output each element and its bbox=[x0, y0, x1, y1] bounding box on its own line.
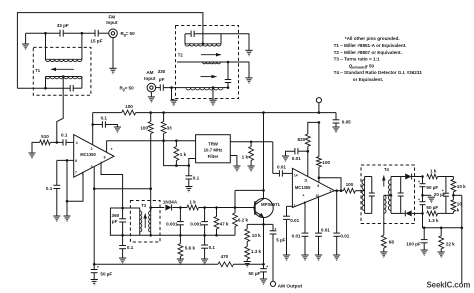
svg-text:50 µF: 50 µF bbox=[100, 272, 112, 277]
svg-text:0.1: 0.1 bbox=[209, 245, 216, 250]
svg-text:1 k: 1 k bbox=[180, 152, 187, 157]
svg-text:1 k: 1 k bbox=[189, 199, 196, 204]
svg-text:510: 510 bbox=[41, 134, 49, 139]
svg-text:0.01: 0.01 bbox=[290, 218, 299, 223]
svg-text:5.6 k: 5.6 k bbox=[185, 246, 196, 251]
svg-text:1 k: 1 k bbox=[242, 155, 249, 160]
svg-text:FM: FM bbox=[108, 15, 115, 20]
svg-text:TRW: TRW bbox=[208, 141, 219, 146]
svg-text:68: 68 bbox=[389, 240, 395, 245]
svg-text:1N34A: 1N34A bbox=[163, 200, 178, 205]
svg-text:*: * bbox=[275, 227, 277, 232]
svg-text:or Equivalent.: or Equivalent. bbox=[353, 77, 383, 82]
svg-text:50 µF: 50 µF bbox=[426, 185, 438, 190]
svg-text:0.05: 0.05 bbox=[342, 119, 351, 124]
svg-text:0.01: 0.01 bbox=[277, 164, 286, 169]
svg-text:*: * bbox=[418, 179, 420, 184]
svg-text:pF: pF bbox=[112, 219, 118, 224]
svg-text:*: * bbox=[97, 265, 99, 270]
svg-text:MC1355: MC1355 bbox=[295, 185, 311, 190]
svg-text:0.001: 0.001 bbox=[190, 222, 202, 227]
svg-text:100: 100 bbox=[322, 160, 330, 165]
svg-text:AM Output: AM Output bbox=[278, 283, 303, 289]
svg-text:MC1350: MC1350 bbox=[80, 152, 96, 157]
svg-text:= 50: = 50 bbox=[125, 85, 135, 90]
svg-text:0.1: 0.1 bbox=[127, 245, 134, 250]
svg-text:T1 – Miller #8851-A or Equival: T1 – Miller #8851-A or Equivalent. bbox=[334, 43, 407, 48]
svg-text:MPS6571: MPS6571 bbox=[261, 202, 280, 207]
svg-text:10.7 MHz: 10.7 MHz bbox=[204, 148, 224, 153]
svg-text:14: 14 bbox=[294, 174, 298, 178]
svg-text:0.01: 0.01 bbox=[321, 227, 330, 232]
svg-text:7: 7 bbox=[329, 189, 331, 193]
svg-text:T3: T3 bbox=[141, 203, 147, 208]
svg-text:4: 4 bbox=[76, 141, 78, 145]
svg-text:T2 – Miller #8807 or Equivalen: T2 – Miller #8807 or Equivalent. bbox=[334, 50, 402, 55]
svg-text:1.3 k: 1.3 k bbox=[428, 218, 439, 223]
svg-text:pF: pF bbox=[159, 77, 165, 82]
svg-text:330: 330 bbox=[158, 69, 166, 74]
svg-text:47 k: 47 k bbox=[220, 222, 229, 227]
svg-text:*: * bbox=[418, 197, 420, 202]
svg-text:Input: Input bbox=[106, 20, 118, 25]
svg-text:T3 – Turns ratio = 1:1: T3 – Turns ratio = 1:1 bbox=[334, 57, 380, 62]
svg-text:Input: Input bbox=[144, 76, 156, 81]
svg-text:= 50: = 50 bbox=[126, 31, 136, 36]
svg-text:0.1: 0.1 bbox=[101, 116, 108, 121]
svg-text:0.1: 0.1 bbox=[46, 186, 53, 191]
svg-text:33: 33 bbox=[167, 126, 173, 131]
svg-text:6: 6 bbox=[75, 159, 77, 163]
svg-text:10 k: 10 k bbox=[457, 184, 466, 189]
svg-text:100: 100 bbox=[140, 126, 148, 131]
svg-text:33 pF: 33 pF bbox=[57, 23, 69, 28]
svg-text:820: 820 bbox=[298, 137, 306, 142]
svg-text:Filter: Filter bbox=[208, 154, 219, 159]
svg-text:*: * bbox=[266, 264, 268, 269]
svg-text:*: * bbox=[442, 188, 444, 193]
svg-text:5 µF: 5 µF bbox=[276, 238, 285, 243]
svg-text:6.2 k: 6.2 k bbox=[238, 217, 249, 222]
svg-text:T2: T2 bbox=[178, 53, 184, 58]
svg-text:0.1: 0.1 bbox=[61, 133, 68, 138]
svg-text:50 µF: 50 µF bbox=[248, 271, 260, 276]
svg-text:11: 11 bbox=[304, 178, 308, 182]
svg-text:15 pF: 15 pF bbox=[90, 38, 102, 43]
svg-text:2: 2 bbox=[91, 147, 93, 151]
svg-text:0.01: 0.01 bbox=[292, 233, 301, 238]
svg-text:10 k: 10 k bbox=[252, 233, 261, 238]
svg-text:*All other pins grounded.: *All other pins grounded. bbox=[345, 36, 400, 41]
svg-text:1 k: 1 k bbox=[430, 168, 437, 173]
svg-text:= 50: = 50 bbox=[365, 63, 375, 68]
svg-text:*: * bbox=[111, 147, 113, 153]
svg-text:8: 8 bbox=[104, 156, 106, 160]
svg-text:7: 7 bbox=[75, 171, 77, 175]
svg-text:T4: T4 bbox=[384, 167, 390, 172]
svg-text:1: 1 bbox=[294, 203, 296, 207]
svg-text:SeekIC.com: SeekIC.com bbox=[427, 281, 471, 290]
svg-text:22 k: 22 k bbox=[446, 241, 455, 246]
svg-text:100: 100 bbox=[125, 104, 133, 109]
svg-text:1.3 k: 1.3 k bbox=[251, 249, 262, 254]
svg-text:0.1: 0.1 bbox=[193, 176, 200, 181]
svg-text:100 pF: 100 pF bbox=[406, 241, 421, 246]
svg-text:0.001: 0.001 bbox=[166, 222, 178, 227]
svg-text:50 µF: 50 µF bbox=[426, 205, 438, 210]
svg-text:100: 100 bbox=[346, 182, 354, 187]
svg-text:5: 5 bbox=[91, 165, 93, 169]
svg-text:T4 – Standard Ratio Detector G: T4 – Standard Ratio Detector G.I. #36231 bbox=[334, 70, 423, 75]
svg-text:470: 470 bbox=[221, 254, 229, 259]
svg-text:0.01: 0.01 bbox=[340, 233, 349, 238]
svg-text:T1: T1 bbox=[35, 68, 41, 73]
svg-text:0.01: 0.01 bbox=[292, 156, 301, 161]
svg-text:360: 360 bbox=[112, 213, 120, 218]
svg-text:8: 8 bbox=[317, 184, 319, 188]
svg-text:AM: AM bbox=[146, 70, 153, 75]
svg-text:k: k bbox=[457, 207, 460, 212]
